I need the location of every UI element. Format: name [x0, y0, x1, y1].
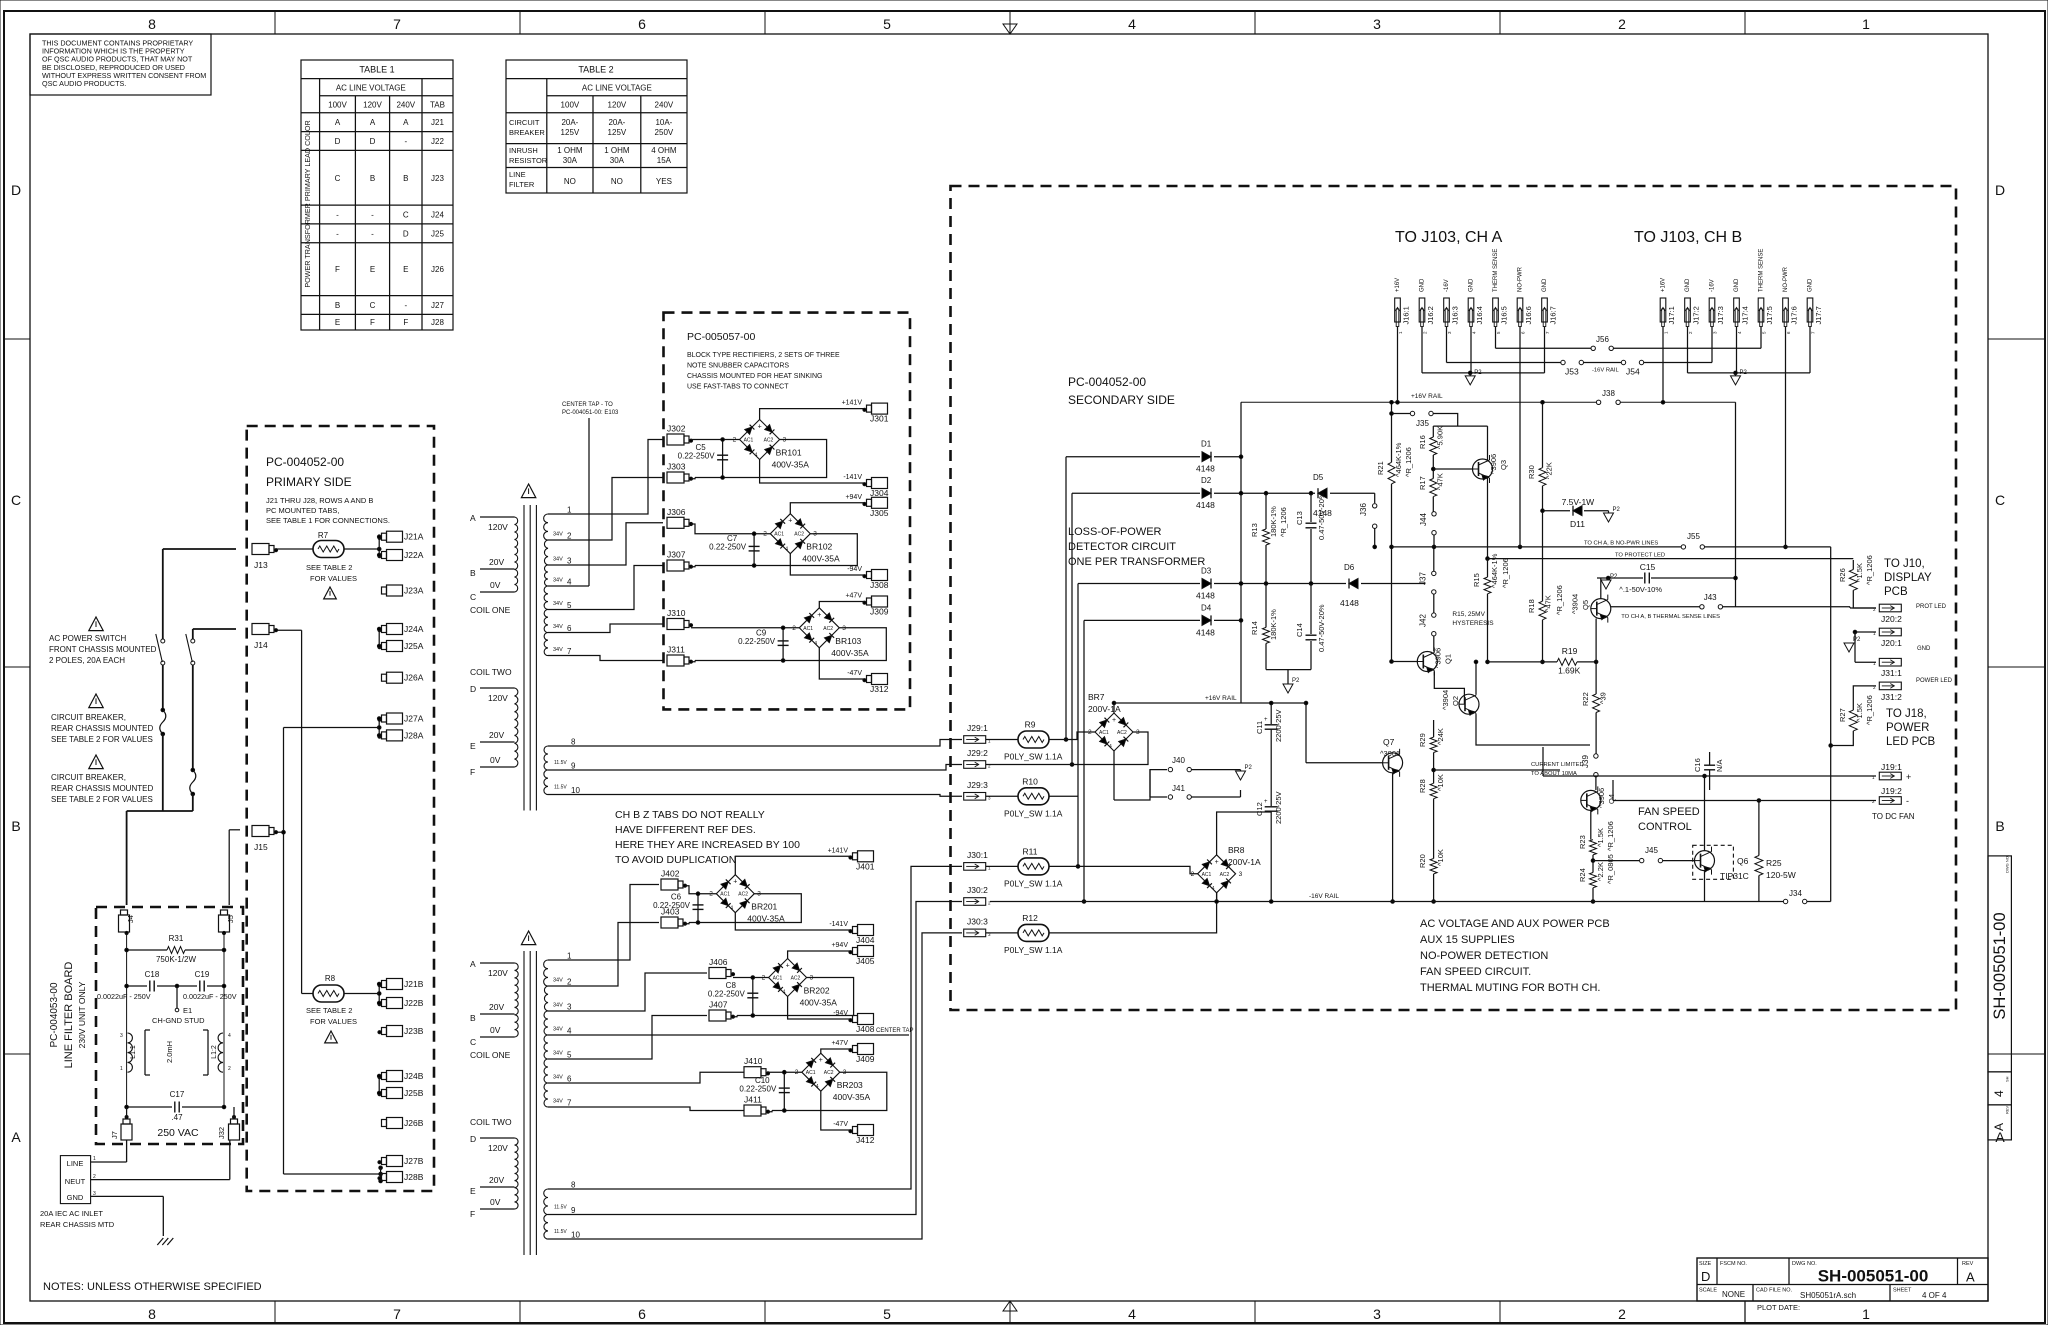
svg-text:2200-25V: 2200-25V	[1274, 791, 1283, 824]
svg-text:7: 7	[393, 16, 401, 32]
svg-text:J19:2: J19:2	[1881, 786, 1902, 796]
svg-text:PC MOUNTED TABS,: PC MOUNTED TABS,	[266, 506, 339, 515]
svg-text:4: 4	[1109, 744, 1112, 750]
svg-text:11.5V: 11.5V	[554, 785, 567, 791]
svg-text:R9: R9	[1025, 720, 1036, 730]
svg-text:11.5V: 11.5V	[554, 760, 567, 766]
svg-text:E: E	[470, 1186, 476, 1196]
svg-text:180K-1%: 180K-1%	[1269, 609, 1278, 640]
svg-text:J409: J409	[856, 1054, 875, 1064]
svg-text:-16V RAIL: -16V RAIL	[1309, 893, 1339, 900]
svg-text:J38: J38	[1602, 389, 1615, 398]
svg-text:J30:1: J30:1	[967, 850, 988, 860]
svg-text:GND: GND	[1469, 278, 1475, 292]
svg-text:F: F	[403, 318, 408, 327]
svg-text:TO DC FAN: TO DC FAN	[1872, 812, 1915, 821]
svg-text:J16:7: J16:7	[1549, 306, 1558, 324]
svg-text:8: 8	[571, 1181, 576, 1190]
svg-text:P0LY_SW 1.1A: P0LY_SW 1.1A	[1004, 808, 1063, 818]
svg-text:^1.5K: ^1.5K	[1855, 563, 1864, 582]
svg-text:D: D	[470, 684, 476, 694]
svg-text:-94V: -94V	[833, 1010, 848, 1017]
svg-text:J17:2: J17:2	[1692, 306, 1701, 324]
svg-text:A: A	[1966, 1270, 1975, 1285]
svg-text:J41: J41	[1172, 784, 1185, 793]
svg-text:4: 4	[1992, 1090, 2006, 1097]
svg-text:J22: J22	[431, 137, 444, 146]
svg-text:400V-35A: 400V-35A	[831, 648, 869, 658]
svg-text:LINE: LINE	[67, 1159, 84, 1168]
svg-text:J17:5: J17:5	[1765, 306, 1774, 324]
svg-text:SEE TABLE 1 FOR CONNECTIONS.: SEE TABLE 1 FOR CONNECTIONS.	[266, 516, 390, 525]
svg-text:+: +	[1906, 772, 1911, 782]
svg-text:CAD FILE NO.: CAD FILE NO.	[1756, 1288, 1793, 1294]
svg-text:AC2: AC2	[1117, 730, 1127, 736]
svg-text:34V: 34V	[553, 532, 563, 538]
svg-text:+141V: +141V	[842, 400, 863, 407]
svg-text:400V-35A: 400V-35A	[802, 554, 840, 564]
svg-text:J42: J42	[1418, 614, 1427, 627]
svg-text:R27: R27	[1838, 708, 1847, 722]
svg-text:R28: R28	[1418, 779, 1427, 793]
svg-text:R29: R29	[1418, 733, 1427, 747]
svg-text:J306: J306	[667, 507, 686, 517]
svg-text:11.5V: 11.5V	[554, 1229, 567, 1235]
svg-text:^3906: ^3906	[1380, 749, 1400, 758]
svg-text:8: 8	[571, 738, 576, 747]
svg-text:-: -	[404, 301, 407, 310]
svg-text:TO CH A, B THERMAL SENSE LINES: TO CH A, B THERMAL SENSE LINES	[1621, 614, 1720, 620]
svg-text:20A-: 20A-	[608, 118, 625, 127]
svg-text:REV: REV	[1962, 1261, 1974, 1267]
svg-text:BR8: BR8	[1228, 845, 1245, 855]
svg-text:R26: R26	[1838, 568, 1847, 582]
svg-text:BREAKER: BREAKER	[509, 128, 545, 137]
svg-text:34V: 34V	[553, 578, 563, 584]
svg-text:20A-: 20A-	[561, 118, 578, 127]
svg-text:REAR CHASSIS MOUNTED: REAR CHASSIS MOUNTED	[51, 784, 153, 793]
svg-text:F: F	[335, 265, 340, 274]
svg-text:AC1: AC1	[720, 892, 730, 898]
svg-text:BLOCK TYPE RECTIFIERS, 2 SETS: BLOCK TYPE RECTIFIERS, 2 SETS OF THREE	[687, 352, 840, 359]
svg-text:HERE THEY ARE INCREASED BY 100: HERE THEY ARE INCREASED BY 100	[615, 839, 800, 851]
svg-text:P2: P2	[1474, 370, 1482, 376]
svg-text:3: 3	[1373, 1306, 1381, 1322]
svg-text:J26: J26	[431, 265, 444, 274]
svg-text:^R_1206: ^R_1206	[1606, 821, 1615, 851]
svg-text:D1: D1	[1201, 440, 1212, 449]
svg-text:D: D	[370, 137, 376, 146]
svg-text:E: E	[403, 265, 408, 274]
svg-text:R21: R21	[1376, 461, 1385, 475]
svg-text:J401: J401	[856, 861, 875, 871]
svg-text:^22K: ^22K	[1545, 462, 1554, 479]
svg-text:+: +	[819, 1057, 823, 1064]
svg-text:SEE TABLE 2 FOR VALUES: SEE TABLE 2 FOR VALUES	[51, 795, 153, 804]
svg-text:J405: J405	[856, 956, 875, 966]
svg-text:B: B	[470, 1013, 476, 1023]
svg-text:R15: R15	[1472, 573, 1481, 587]
svg-text:P2: P2	[1610, 574, 1618, 580]
svg-text:HAVE DIFFERENT REF DES.: HAVE DIFFERENT REF DES.	[615, 824, 756, 836]
svg-text:AC2: AC2	[823, 626, 833, 632]
svg-text:2.0mH: 2.0mH	[165, 1041, 174, 1063]
svg-text:+: +	[1112, 717, 1116, 724]
svg-text:POWER TRANSFORMER PRIMARY LEAD: POWER TRANSFORMER PRIMARY LEAD COLOR	[303, 120, 312, 287]
svg-text:^3904: ^3904	[1441, 690, 1450, 710]
svg-text:B: B	[335, 301, 340, 310]
svg-text:C11: C11	[1255, 721, 1264, 734]
svg-text:B: B	[403, 174, 408, 183]
svg-text:2200-25V: 2200-25V	[1274, 709, 1283, 742]
svg-text:A: A	[11, 1129, 21, 1145]
svg-text:250V: 250V	[655, 128, 674, 137]
svg-text:BR201: BR201	[751, 902, 777, 912]
svg-text:-141V: -141V	[843, 474, 862, 481]
svg-text:4 OF 4: 4 OF 4	[1922, 1291, 1947, 1300]
svg-text:LINE: LINE	[509, 170, 526, 179]
svg-text:6: 6	[567, 1075, 572, 1084]
svg-text:THERM SENSE: THERM SENSE	[1759, 249, 1765, 292]
svg-text:2: 2	[567, 978, 572, 987]
svg-text:2: 2	[1191, 871, 1195, 878]
svg-text:J14: J14	[254, 640, 268, 650]
svg-text:J410: J410	[744, 1056, 763, 1066]
svg-text:34V: 34V	[553, 1051, 563, 1057]
svg-text:F: F	[470, 1209, 475, 1219]
svg-text:6: 6	[638, 1306, 646, 1322]
svg-text:ONE PER TRANSFORMER: ONE PER TRANSFORMER	[1068, 556, 1205, 568]
svg-text:J53: J53	[1565, 367, 1579, 377]
svg-text:3: 3	[1373, 16, 1381, 32]
svg-text:^R_1206: ^R_1206	[1279, 507, 1288, 537]
svg-text:J403: J403	[661, 907, 680, 917]
svg-text:+47V: +47V	[845, 593, 862, 600]
svg-text:J26A: J26A	[404, 673, 424, 683]
svg-text:NO-PWR: NO-PWR	[1783, 266, 1789, 292]
svg-text:Q1: Q1	[1444, 654, 1453, 664]
svg-text:C16: C16	[1693, 758, 1702, 772]
svg-text:GND: GND	[1808, 278, 1814, 292]
svg-text:+141V: +141V	[828, 847, 849, 854]
svg-text:THERM SENSE: THERM SENSE	[1493, 249, 1499, 292]
svg-text:C: C	[11, 492, 21, 508]
svg-text:-: -	[371, 229, 374, 238]
svg-text:J35: J35	[1416, 419, 1429, 428]
svg-text:J56: J56	[1596, 335, 1609, 344]
svg-text:J16:2: J16:2	[1426, 306, 1435, 324]
svg-text:4: 4	[567, 578, 572, 587]
svg-text:34V: 34V	[553, 557, 563, 563]
svg-text:CIRCUIT: CIRCUIT	[509, 118, 540, 127]
svg-text:0.47-50V-20%: 0.47-50V-20%	[1317, 604, 1326, 652]
svg-text:YES: YES	[656, 177, 672, 186]
svg-text:^R_1206: ^R_1206	[1501, 558, 1510, 588]
svg-text:4148: 4148	[1196, 627, 1215, 637]
svg-text:D5: D5	[1313, 473, 1324, 482]
svg-text:11.5V: 11.5V	[554, 1205, 567, 1211]
svg-text:R19: R19	[1562, 646, 1578, 656]
svg-text:SCALE: SCALE	[1699, 1288, 1717, 1294]
svg-text:120V: 120V	[488, 522, 508, 532]
svg-text:R12: R12	[1022, 913, 1038, 923]
svg-text:L1:2: L1:2	[211, 1045, 218, 1059]
svg-text:AC1: AC1	[774, 532, 784, 538]
svg-text:COIL ONE: COIL ONE	[470, 605, 511, 615]
svg-text:R10: R10	[1022, 776, 1038, 786]
svg-text:P2: P2	[1613, 507, 1621, 513]
svg-text:J16:1: J16:1	[1402, 306, 1411, 324]
svg-text:J408: J408	[856, 1024, 875, 1034]
svg-text:A: A	[1992, 1123, 2006, 1131]
svg-text:+16V: +16V	[1395, 278, 1401, 292]
svg-text:7: 7	[567, 647, 572, 656]
svg-text:0V: 0V	[490, 755, 501, 765]
svg-text:LOSS-OF-POWER: LOSS-OF-POWER	[1068, 526, 1162, 538]
svg-text:20V: 20V	[489, 1175, 504, 1185]
svg-text:FOR VALUES: FOR VALUES	[310, 574, 357, 583]
svg-text:J27B: J27B	[404, 1156, 424, 1166]
svg-text:TO PROTECT LED: TO PROTECT LED	[1615, 553, 1665, 559]
svg-text:-47V: -47V	[847, 670, 862, 677]
svg-text:AC2: AC2	[1220, 872, 1230, 878]
svg-text:1 OHM: 1 OHM	[604, 146, 630, 155]
svg-text:J30:3: J30:3	[967, 916, 988, 926]
svg-text:SH05051rA.sch: SH05051rA.sch	[1800, 1291, 1856, 1300]
svg-text:+16V RAIL: +16V RAIL	[1205, 695, 1237, 702]
svg-text:REAR CHASSIS MOUNTED: REAR CHASSIS MOUNTED	[51, 724, 153, 733]
svg-text:1: 1	[567, 506, 572, 515]
svg-text:1.69K: 1.69K	[1558, 666, 1581, 676]
svg-text:8: 8	[148, 1306, 156, 1322]
svg-text:AC POWER SWITCH: AC POWER SWITCH	[49, 634, 127, 643]
svg-text:J28: J28	[431, 318, 444, 327]
svg-text:J13: J13	[254, 560, 268, 570]
svg-text:J301: J301	[870, 414, 889, 424]
svg-text:GND: GND	[1734, 278, 1740, 292]
svg-text:^3906: ^3906	[1597, 788, 1606, 808]
svg-text:4 OHM: 4 OHM	[651, 146, 677, 155]
svg-text:^47K: ^47K	[1435, 473, 1444, 490]
svg-text:J39: J39	[1581, 755, 1590, 768]
svg-text:B: B	[11, 818, 20, 834]
svg-text:A: A	[470, 513, 476, 523]
svg-text:0.22-250V: 0.22-250V	[709, 543, 747, 552]
svg-text:R8: R8	[325, 974, 336, 983]
svg-text:DWG NO.: DWG NO.	[2005, 855, 2010, 873]
svg-text:SH-005051-00: SH-005051-00	[1818, 1267, 1929, 1286]
svg-text:4148: 4148	[1196, 464, 1215, 474]
svg-text:-: -	[371, 211, 374, 220]
svg-text:J25A: J25A	[404, 641, 424, 651]
svg-text:4: 4	[1128, 16, 1136, 32]
svg-text:0.22-250V: 0.22-250V	[739, 1084, 777, 1093]
svg-text:7: 7	[567, 1099, 572, 1108]
svg-text:240V: 240V	[655, 101, 674, 110]
svg-text:J411: J411	[744, 1095, 762, 1105]
svg-text:400V-35A: 400V-35A	[772, 460, 810, 470]
svg-text:Q5: Q5	[1581, 600, 1590, 610]
svg-text:P0LY_SW 1.1A: P0LY_SW 1.1A	[1004, 752, 1063, 762]
svg-text:Q3: Q3	[1499, 460, 1508, 470]
svg-text:USE FAST-TABS TO CONNECT: USE FAST-TABS TO CONNECT	[687, 384, 789, 391]
svg-text:B: B	[1995, 818, 2004, 834]
svg-text:Q2: Q2	[1451, 696, 1460, 706]
svg-text:J17:4: J17:4	[1741, 306, 1750, 324]
svg-text:120V: 120V	[608, 101, 627, 110]
svg-text:1: 1	[1862, 1306, 1870, 1322]
svg-text:PC-004053-00: PC-004053-00	[49, 982, 60, 1047]
svg-text:400V-35A: 400V-35A	[747, 914, 785, 924]
svg-text:AC2: AC2	[764, 438, 774, 444]
svg-text:J7: J7	[110, 1131, 119, 1139]
svg-text:INRUSH: INRUSH	[509, 146, 538, 155]
svg-text:CHASSIS MOUNTED FOR HEAT SINKI: CHASSIS MOUNTED FOR HEAT SINKING	[687, 373, 822, 380]
svg-text:J311: J311	[667, 645, 685, 655]
svg-text:TO J10,: TO J10,	[1884, 558, 1925, 570]
svg-text:POWER: POWER	[1886, 722, 1929, 734]
svg-text:J4: J4	[126, 915, 135, 923]
svg-text:6: 6	[638, 16, 646, 32]
svg-text:J304: J304	[870, 488, 889, 498]
svg-text:-94V: -94V	[847, 566, 862, 573]
svg-text:J307: J307	[667, 550, 686, 560]
svg-text:J305: J305	[870, 508, 889, 518]
svg-text:-16V RAIL: -16V RAIL	[1592, 368, 1620, 374]
svg-text:120V: 120V	[363, 101, 382, 110]
svg-text:125V: 125V	[608, 128, 627, 137]
svg-text:3: 3	[567, 1003, 572, 1012]
svg-text:TO J18,: TO J18,	[1886, 708, 1927, 720]
svg-text:THERMAL MUTING FOR BOTH CH.: THERMAL MUTING FOR BOTH CH.	[1420, 982, 1600, 994]
svg-text:^1.5K: ^1.5K	[1596, 828, 1605, 847]
svg-text:J16:3: J16:3	[1451, 306, 1460, 324]
svg-text:CIRCUIT BREAKER,: CIRCUIT BREAKER,	[51, 713, 126, 722]
svg-text:R23: R23	[1578, 835, 1587, 849]
svg-text:0.22-250V: 0.22-250V	[708, 990, 746, 999]
svg-text:+: +	[1264, 717, 1268, 723]
svg-text:30A: 30A	[610, 156, 625, 165]
svg-text:A: A	[403, 118, 409, 127]
svg-text:FSCM NO.: FSCM NO.	[1720, 1261, 1747, 1267]
svg-text:C18: C18	[145, 970, 160, 979]
svg-text:B: B	[370, 174, 375, 183]
svg-text:L1:1: L1:1	[130, 1045, 137, 1059]
svg-text:20V: 20V	[489, 557, 504, 567]
svg-text:CURRENT LIMITED: CURRENT LIMITED	[1531, 762, 1584, 768]
svg-text:4: 4	[1212, 886, 1215, 892]
svg-text:DISPLAY: DISPLAY	[1884, 572, 1932, 584]
svg-text:4148: 4148	[1196, 591, 1215, 601]
svg-text:J25B: J25B	[404, 1088, 424, 1098]
svg-text:J23B: J23B	[404, 1026, 424, 1036]
svg-text:J44: J44	[1419, 513, 1428, 526]
svg-text:C: C	[370, 301, 376, 310]
svg-text:D: D	[11, 182, 21, 198]
svg-text:R25: R25	[1766, 858, 1782, 868]
svg-text:NO-POWER DETECTION: NO-POWER DETECTION	[1420, 950, 1548, 962]
svg-text:CIRCUIT BREAKER,: CIRCUIT BREAKER,	[51, 773, 126, 782]
svg-text:C: C	[335, 174, 341, 183]
svg-text:J28B: J28B	[404, 1172, 424, 1182]
svg-text:+: +	[788, 518, 792, 525]
svg-text:J31:2: J31:2	[1881, 692, 1902, 702]
svg-text:100V: 100V	[561, 101, 580, 110]
svg-text:TO CH A, B NO-PWR LINES: TO CH A, B NO-PWR LINES	[1584, 541, 1658, 547]
svg-text:NEUT: NEUT	[65, 1177, 86, 1186]
svg-text:SH: SH	[2005, 1076, 2010, 1082]
svg-text:N/A: N/A	[1715, 759, 1724, 772]
svg-text:BR203: BR203	[837, 1080, 863, 1090]
svg-text:1: 1	[93, 1156, 96, 1162]
svg-text:4: 4	[730, 906, 733, 912]
svg-text:^.1-50V-10%: ^.1-50V-10%	[1619, 585, 1662, 594]
svg-text:2: 2	[1618, 1306, 1626, 1322]
svg-text:^24K: ^24K	[1436, 728, 1445, 745]
svg-text:+94V: +94V	[845, 494, 862, 501]
svg-text:F: F	[370, 318, 375, 327]
svg-text:AC1: AC1	[806, 1070, 816, 1076]
svg-text:A: A	[470, 959, 476, 969]
svg-text:-141V: -141V	[829, 921, 848, 928]
svg-text:+: +	[817, 612, 821, 619]
svg-text:J15: J15	[254, 842, 268, 852]
svg-text:4: 4	[567, 1027, 572, 1036]
svg-text:C: C	[470, 1037, 476, 1047]
svg-text:-47V: -47V	[833, 1121, 848, 1128]
svg-text:C17: C17	[170, 1090, 185, 1099]
svg-text:120-5W: 120-5W	[1766, 870, 1796, 880]
svg-text:34V: 34V	[553, 1099, 563, 1105]
svg-text:J312: J312	[870, 684, 889, 694]
svg-text:BR7: BR7	[1088, 692, 1105, 702]
svg-text:C: C	[403, 211, 409, 220]
svg-text:J36: J36	[1359, 503, 1368, 516]
svg-text:J54: J54	[1626, 367, 1640, 377]
svg-text:1: 1	[567, 952, 572, 961]
svg-text:J302: J302	[667, 424, 686, 434]
svg-text:TO J103, CH B: TO J103, CH B	[1634, 229, 1742, 246]
svg-text:0.0022uF - 250V: 0.0022uF - 250V	[97, 992, 151, 1001]
svg-text:POWER LED: POWER LED	[1916, 678, 1953, 684]
svg-text:P2: P2	[1245, 765, 1253, 771]
svg-text:D4: D4	[1201, 603, 1212, 612]
svg-text:J24B: J24B	[404, 1071, 424, 1081]
svg-text:J20:1: J20:1	[1881, 638, 1902, 648]
svg-text:D: D	[403, 229, 409, 238]
svg-text:^39: ^39	[1598, 692, 1607, 704]
svg-text:5: 5	[567, 601, 572, 610]
svg-text:J22B: J22B	[404, 998, 424, 1008]
svg-text:AC1: AC1	[744, 438, 754, 444]
svg-text:C: C	[1995, 492, 2005, 508]
svg-text:J20:2: J20:2	[1881, 614, 1902, 624]
svg-text:+: +	[758, 424, 762, 431]
svg-text:AC1: AC1	[773, 976, 783, 982]
svg-text:SH-005051-00: SH-005051-00	[1991, 912, 2009, 1019]
svg-text:COIL TWO: COIL TWO	[470, 1117, 512, 1127]
svg-text:D: D	[1701, 1269, 1710, 1284]
svg-text:AUX 15 SUPPLIES: AUX 15 SUPPLIES	[1420, 934, 1515, 946]
svg-text:2: 2	[567, 532, 572, 541]
svg-text:P2: P2	[1853, 637, 1861, 643]
svg-text:BR101: BR101	[776, 448, 802, 458]
svg-text:J308: J308	[870, 580, 889, 590]
svg-text:C: C	[470, 592, 476, 602]
svg-text:FAN SPEED CIRCUIT.: FAN SPEED CIRCUIT.	[1420, 966, 1531, 978]
svg-text:J5: J5	[226, 915, 235, 923]
svg-text:2: 2	[1618, 16, 1626, 32]
